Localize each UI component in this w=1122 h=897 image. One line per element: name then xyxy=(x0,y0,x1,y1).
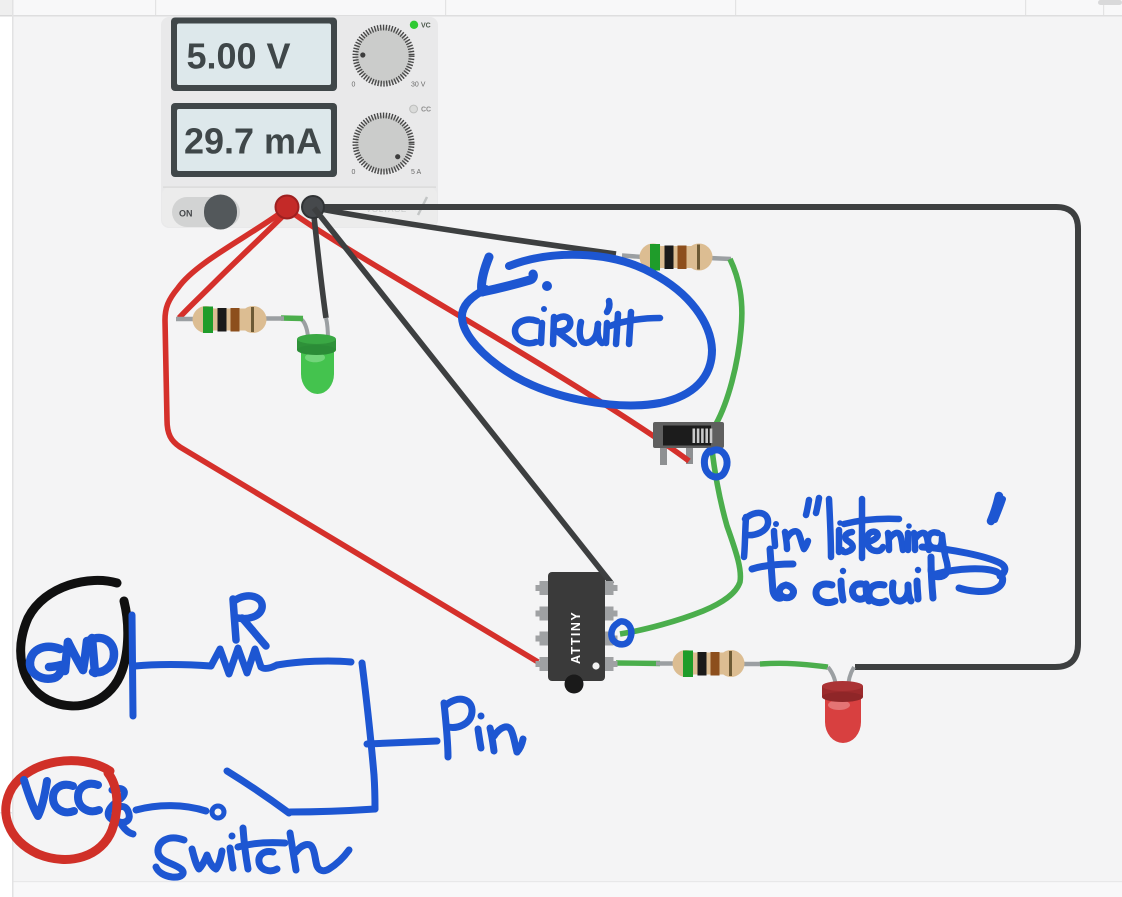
annotation: blue ellipse around circuit xyxy=(462,255,712,406)
knob current xyxy=(352,116,422,177)
lead: resistor R2 right xyxy=(709,258,731,259)
lead: green LED anode xyxy=(326,318,328,340)
svg-text:ON: ON xyxy=(179,209,193,219)
annotation: red circle around VCC xyxy=(6,761,117,860)
annotation: word "circuit" inside ellipse xyxy=(515,301,660,344)
resistor R3 (green-black-brown) xyxy=(673,650,745,677)
svg-text:29.7 mA: 29.7 mA xyxy=(184,121,322,162)
wire black: - terminal down to green LED anode xyxy=(313,207,326,318)
lead: resistor R3 right xyxy=(741,662,762,666)
ATTINY U1 body xyxy=(548,572,605,681)
wire black: - terminal to resistor R2 xyxy=(315,208,616,254)
terminal negative (black) xyxy=(302,196,324,218)
annotation: blue circle on ATTINY pin 5 xyxy=(611,621,631,644)
resistor R2 (green-black-brown) xyxy=(640,244,713,271)
svg-text:CC: CC xyxy=(421,107,431,114)
svg-text:30 V: 30 V xyxy=(411,82,426,89)
annotation: label PiN xyxy=(444,699,523,757)
lead: red LED cathode xyxy=(828,667,836,689)
annotation: arrow mark top-left of ellipse xyxy=(482,257,552,292)
wire black: - terminal around top and right to red LED anode xyxy=(313,207,1078,667)
annotation: schematic switch branch to VCC xyxy=(108,771,375,834)
wire green: resistor R2 down through slide switch to ATTINY pin 5 xyxy=(620,259,742,634)
terminal positive (red) xyxy=(276,196,299,219)
annotation: text VCC xyxy=(24,780,99,816)
LED green D1 xyxy=(297,334,336,394)
indicator VC LED xyxy=(410,21,431,30)
svg-text:5 A: 5 A xyxy=(411,169,421,176)
knob voltage xyxy=(352,28,426,89)
lead: red LED anode xyxy=(848,667,854,689)
annotation: blue circle on slide switch pin xyxy=(704,450,727,477)
wire red: + terminal to bend and down to ATTINY pin 4 xyxy=(165,209,538,662)
svg-text:0: 0 xyxy=(352,169,356,176)
annotation: text GND xyxy=(30,638,114,679)
svg-text:5.00 V: 5.00 V xyxy=(186,36,290,77)
lead: resistor R1 right xyxy=(264,316,284,320)
ON toggle switch xyxy=(172,195,240,230)
annotation: black circle around GND xyxy=(21,580,128,706)
wire green: resistor R1 to green LED xyxy=(281,315,303,321)
ATTINY U1 pins and marking xyxy=(536,581,618,694)
svg-text:ATTINY: ATTINY xyxy=(569,611,583,664)
display current "29.7 mA" xyxy=(171,103,337,177)
annotation: schematic GND rail and resistor R xyxy=(132,615,437,809)
wire green: resistor R3 to red LED cathode xyxy=(760,663,828,667)
resistor R1 (green-black-brown) xyxy=(193,306,267,333)
corner cell xyxy=(0,0,12,17)
POWER SUPPLY PS1 xyxy=(161,17,438,228)
svg-text:0: 0 xyxy=(352,82,356,89)
wire black: - terminal diagonal to ATTINY pin 8 xyxy=(314,208,612,584)
lead: green LED cathode from green wire xyxy=(301,319,308,340)
lead: resistor R1 left xyxy=(176,317,196,321)
slide switch S1 xyxy=(653,422,724,448)
lead: resistor R3 left xyxy=(656,661,676,665)
top ruler strip xyxy=(14,0,1122,17)
annotation: text to circuit with swoosh xyxy=(752,547,1005,603)
wire red: + terminal to resistor R1 xyxy=(179,210,289,318)
wire green: ATTINY pin 6 to resistor R3 xyxy=(616,660,660,666)
bottom strip xyxy=(14,881,1122,897)
annotation: label R xyxy=(233,596,266,646)
annotation: text Pin "listening" xyxy=(744,496,1003,577)
lead: resistor R2 left xyxy=(622,256,643,258)
display voltage "5.00 V" xyxy=(171,18,337,92)
svg-text:VC: VC xyxy=(421,23,431,30)
indicator CC LED xyxy=(410,105,431,113)
left ruler strip xyxy=(0,0,14,897)
wire red: + terminal to slide switch pin xyxy=(290,211,689,461)
LED red D2 xyxy=(822,681,863,743)
annotation: text Switch xyxy=(156,828,349,877)
label VOLTAGE xyxy=(366,197,427,215)
slide switch S1 legs xyxy=(660,445,693,465)
